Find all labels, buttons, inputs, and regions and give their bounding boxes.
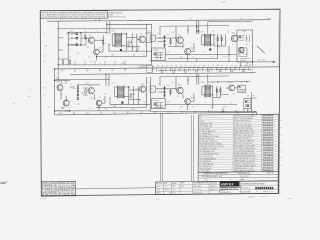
- wire pair to spec box A: [161, 114, 163, 182]
- diode CR33: [163, 94, 165, 96]
- revision table: [41, 181, 75, 196]
- svg-text:SHEET 1 OF 2: SHEET 1 OF 2: [263, 191, 273, 193]
- svg-text:DESCRIPTION: DESCRIPTION: [238, 173, 251, 175]
- wire CH2 transformer leads: [202, 35, 215, 45]
- wire CH1 input column: [58, 33, 108, 66]
- svg-text:DSGN: DSGN: [156, 186, 160, 188]
- svg-text:27: 27: [55, 187, 57, 189]
- svg-text:DES: DES: [42, 192, 45, 194]
- svg-text:R13: R13: [219, 35, 222, 37]
- svg-text:ITEM: ITEM: [204, 179, 208, 181]
- svg-text:DTE: DTE: [42, 185, 45, 187]
- svg-text:P4: P4: [212, 65, 214, 67]
- sheet border frame: [40, 9, 280, 196]
- middle secondary rail: [158, 68, 253, 71]
- svg-text:27: 27: [42, 190, 44, 192]
- svg-text:14: 14: [51, 187, 53, 189]
- wire CH4 output columns: [213, 86, 221, 109]
- revision table text: [42, 182, 76, 197]
- wire CH3 frame: [55, 80, 110, 111]
- svg-text:Q1: Q1: [89, 35, 91, 37]
- wire bottom inner border: [76, 188, 156, 189]
- svg-text:J1: J1: [44, 33, 46, 35]
- wire CH1 upper rail: [58, 28, 146, 30]
- wire CH1 left bus: [57, 21, 59, 68]
- svg-text:STRESS: STRESS: [164, 189, 170, 191]
- relay box K2: [152, 99, 166, 109]
- svg-text:C3: C3: [116, 47, 118, 49]
- svg-text:B8: B8: [171, 69, 173, 71]
- svg-text:B1: B1: [72, 190, 74, 192]
- svg-text:P4: P4: [180, 69, 182, 71]
- svg-text:R29: R29: [77, 104, 80, 106]
- bottom bus component ticks: [60, 110, 249, 115]
- svg-text:DTE: DTE: [59, 190, 62, 192]
- svg-text:R8: R8: [138, 49, 140, 51]
- transistor Q1: [88, 37, 94, 43]
- wire CH4 input links: [156, 86, 176, 98]
- svg-text:R24: R24: [113, 106, 116, 108]
- svg-text:E7: E7: [166, 66, 168, 68]
- svg-text:C33: C33: [211, 106, 214, 108]
- transistor Q23: [88, 88, 94, 94]
- svg-text:P1: P1: [44, 88, 46, 90]
- svg-text:E2: E2: [221, 65, 223, 67]
- company logo block: [220, 181, 242, 194]
- svg-text:E2: E2: [44, 62, 46, 64]
- svg-text:W1: W1: [253, 95, 255, 97]
- capacitor C2 sym: [130, 41, 132, 44]
- top bus annotations: [60, 18, 242, 21]
- svg-text:14: 14: [64, 185, 66, 187]
- CH1 hanging component stubs: [75, 61, 125, 65]
- wire CH3 risers: [94, 74, 109, 111]
- middle labels sparse left: [63, 69, 128, 72]
- diode CR24: [77, 98, 79, 100]
- transistor Q33: [229, 85, 235, 91]
- svg-text:B2: B2: [140, 19, 142, 21]
- svg-text:GULATED AC SWITCH HIGH: GULATED AC SWITCH HIGH: [241, 182, 265, 185]
- transistor Q3: [139, 36, 146, 43]
- svg-text:USED ON: USED ON: [210, 186, 217, 188]
- CH2 junction dots: [164, 25, 230, 55]
- svg-text:CODE 1234: CODE 1234: [168, 193, 176, 195]
- svg-text:T2: T2: [198, 65, 200, 67]
- svg-text:C13: C13: [211, 56, 214, 58]
- transistor Q22: [63, 100, 69, 106]
- svg-text:REFERENCE DESIGNATION: REFERENCE DESIGNATION: [203, 172, 228, 175]
- svg-text:27: 27: [72, 192, 74, 194]
- transistor Q32: [185, 99, 191, 105]
- wire CH4 stick rail: [220, 94, 228, 96]
- input terminal J1-B: [69, 37, 78, 40]
- svg-text:C3: C3: [190, 19, 192, 21]
- svg-text:6.8: 6.8: [61, 94, 63, 96]
- general notes box: [40, 11, 126, 19]
- wire CH1 right bus: [137, 24, 152, 65]
- svg-text:S1: S1: [245, 54, 247, 56]
- margin mark bottom-left outside: [1, 182, 8, 184]
- svg-text:.01: .01: [204, 102, 206, 104]
- svg-text:.01: .01: [99, 63, 101, 65]
- wire CH2 output arrow: [253, 61, 276, 63]
- svg-text:R9: R9: [153, 69, 155, 71]
- svg-text:DRN J.B: DRN J.B: [156, 183, 162, 185]
- bottom bus labels: [61, 110, 253, 115]
- middle terminal blocks: [161, 70, 244, 73]
- wire CH2 risers: [160, 21, 199, 61]
- svg-text:R9: R9: [77, 53, 79, 55]
- svg-text:C8: C8: [155, 112, 157, 114]
- svg-text:R7: R7: [231, 65, 233, 67]
- title strip frame: [156, 181, 279, 195]
- svg-text:CR25: CR25: [131, 109, 136, 111]
- svg-text:+15: +15: [227, 82, 230, 84]
- svg-text:B1: B1: [42, 187, 44, 189]
- svg-text:B1: B1: [59, 192, 61, 194]
- svg-text:2.2: 2.2: [192, 57, 194, 59]
- resistor R20a: [69, 59, 70, 64]
- svg-text:B1: B1: [55, 185, 57, 187]
- svg-text:115: 115: [151, 39, 154, 41]
- input terminal J2-A: [60, 107, 64, 110]
- svg-text:WT: WT: [256, 191, 258, 193]
- capacitor C3 polarized: [120, 49, 122, 51]
- svg-text:C1: C1: [61, 113, 63, 115]
- svg-text:E8: E8: [231, 103, 233, 105]
- svg-text:P2: P2: [44, 96, 46, 98]
- svg-text:K2: K2: [171, 66, 173, 68]
- margin speck left 2: [28, 89, 33, 93]
- junction node CH1 input: [85, 37, 86, 38]
- wire CH1 transformer leads: [112, 34, 126, 46]
- svg-text:R15: R15: [180, 57, 183, 59]
- svg-text:R11: R11: [167, 34, 170, 36]
- wire CH2 box stubs: [241, 62, 253, 67]
- wire CH1 mid links: [95, 43, 104, 60]
- wire stub right border: [252, 98, 257, 115]
- margin mark top 2: [221, 1, 226, 3]
- wire CH2 input links: [156, 35, 176, 48]
- svg-text:+15: +15: [44, 56, 47, 58]
- wire middle bus A: [55, 67, 280, 69]
- signature block grid: [156, 182, 193, 195]
- transformer T1: [115, 33, 121, 47]
- svg-text:R21: R21: [81, 92, 84, 94]
- svg-text:K1 115V: K1 115V: [153, 50, 160, 52]
- resistor R12: [217, 36, 218, 41]
- CH2 value annotations: [158, 31, 249, 60]
- junction dots CH4 rail: [217, 81, 247, 82]
- relay box K1: [152, 48, 166, 61]
- CH1 value annotations: [69, 31, 150, 65]
- svg-text:K2 115V: K2 115V: [153, 100, 160, 102]
- wire CH1 bottom rails: [58, 45, 151, 65]
- svg-text:Q31: Q31: [178, 84, 181, 86]
- transformer T2: [205, 34, 211, 47]
- margin marks below border: [156, 197, 292, 200]
- middle terminal ticks sparse left: [62, 68, 125, 72]
- svg-text:C9: C9: [169, 111, 171, 113]
- svg-text:22: 22: [232, 44, 234, 46]
- svg-text:AMPEX: AMPEX: [221, 182, 235, 186]
- svg-text:P1: P1: [226, 69, 228, 71]
- capacitor C22 sym: [132, 92, 134, 95]
- svg-text:C1: C1: [226, 65, 228, 67]
- svg-text:DES: DES: [55, 190, 58, 192]
- svg-text:4-1-67: 4-1-67: [172, 189, 176, 191]
- svg-text:Q21: Q21: [56, 82, 59, 84]
- svg-text:P2: P2: [157, 66, 159, 68]
- svg-text:R2: R2: [101, 38, 103, 40]
- middle terminal labels: [152, 64, 251, 72]
- input terminal J2-B: [65, 110, 71, 113]
- parts list table: [198, 114, 279, 172]
- table margin row marks: [280, 120, 283, 165]
- diode CR23: [77, 94, 79, 96]
- svg-text:.01: .01: [99, 97, 101, 99]
- parts table text: [199, 115, 273, 173]
- svg-text:DES: DES: [68, 187, 71, 189]
- svg-text:C9: C9: [235, 65, 237, 67]
- svg-text:+28: +28: [148, 31, 151, 33]
- transistor Q25: [140, 86, 146, 92]
- svg-text:B3: B3: [208, 69, 210, 71]
- svg-text:B4: B4: [175, 66, 177, 68]
- svg-text:+28: +28: [227, 32, 230, 34]
- diode CR12: [163, 40, 165, 42]
- svg-text:B3: B3: [240, 65, 242, 67]
- svg-text:DTE: DTE: [55, 183, 58, 185]
- svg-text:T: T: [124, 31, 125, 33]
- wire CH1 output columns: [127, 33, 141, 51]
- svg-text:C4: C4: [101, 112, 103, 114]
- drawing title text: [240, 179, 278, 193]
- svg-text:22: 22: [71, 84, 73, 86]
- svg-text:C4: C4: [64, 192, 66, 194]
- resistor R32: [216, 88, 217, 93]
- wire CH3 right bus: [138, 77, 150, 111]
- resistor R13: [221, 36, 222, 41]
- svg-text:1-CR,J 49,-2: 1-CR,J 49,-2: [241, 187, 250, 189]
- svg-text:DES: DES: [51, 183, 54, 185]
- svg-text:CB: CB: [246, 38, 248, 40]
- svg-text:20: 20: [136, 89, 138, 91]
- wire CH3 output columns: [129, 86, 141, 104]
- label common return: [139, 66, 153, 73]
- svg-text:B1: B1: [68, 183, 70, 185]
- svg-text:CR24: CR24: [90, 98, 94, 100]
- output block CH4: [244, 98, 251, 108]
- svg-text:C15: C15: [250, 110, 253, 112]
- wire CH3 transformer leads: [115, 87, 129, 97]
- input box CH4: [150, 86, 156, 92]
- svg-text:DTE: DTE: [72, 187, 75, 189]
- drawing number digits: [241, 187, 276, 190]
- svg-text:Q25: Q25: [140, 83, 143, 85]
- capacitor C23 polarized: [121, 102, 123, 104]
- wire CH3 bottom rails: [55, 97, 151, 111]
- svg-text:Q3: Q3: [140, 34, 142, 36]
- border inner shadow line: [277, 20, 279, 67]
- svg-text:DS2: DS2: [247, 96, 250, 98]
- wire CH2 output columns: [214, 34, 226, 59]
- CH3 value annotations: [48, 78, 150, 111]
- svg-text:C10: C10: [182, 111, 185, 113]
- resistor R11: [170, 39, 171, 44]
- svg-text:T: T: [126, 83, 127, 85]
- svg-text:C12: C12: [209, 111, 212, 113]
- wire left bus extension: [57, 69, 59, 81]
- svg-text:PART NO: PART NO: [267, 172, 275, 175]
- svg-text:MECHANICAL PARTS LIST: MECHANICAL PARTS LIST: [202, 175, 223, 178]
- resistor R1: [85, 34, 86, 39]
- svg-text:SH 1: SH 1: [241, 179, 244, 181]
- svg-text:C6: C6: [143, 54, 145, 56]
- svg-text:F2: F2: [158, 84, 160, 86]
- svg-text:Q23: Q23: [89, 85, 92, 87]
- procurement spec cell: [193, 181, 226, 194]
- wire middle bus B: [70, 73, 256, 75]
- svg-text:K1: K1: [244, 65, 246, 67]
- transistor Q24: [96, 100, 102, 106]
- svg-text:Q2: Q2: [99, 48, 101, 50]
- middle terminal ticks dense right: [152, 67, 249, 72]
- CH1 junction dots: [58, 24, 138, 57]
- svg-text:CHK: CHK: [164, 183, 167, 185]
- wire notes box stub: [99, 18, 101, 21]
- junction dot CH2 out: [252, 61, 253, 62]
- svg-text:PROJ: PROJ: [156, 189, 160, 191]
- svg-text:2.2: 2.2: [192, 107, 194, 109]
- diode CR31: [163, 87, 165, 89]
- resistor R2: [102, 39, 103, 44]
- svg-text:C7: C7: [142, 112, 144, 114]
- svg-text:Q33: Q33: [229, 82, 232, 84]
- transformer T4: [205, 85, 210, 98]
- svg-text:B1: B1: [46, 195, 48, 197]
- svg-text:FINISH: FINISH: [156, 193, 161, 195]
- svg-text:R7: R7: [199, 69, 201, 71]
- CH4 junction dots: [164, 76, 224, 113]
- resistor R33: [220, 88, 221, 93]
- wire CH4 transformer leads: [202, 87, 213, 95]
- wire CH1 risers: [107, 21, 152, 34]
- resistor R31: [170, 89, 171, 94]
- wire CH3 left bus: [54, 69, 56, 115]
- svg-text:Q13: Q13: [232, 33, 235, 35]
- svg-text:CR34: CR34: [223, 106, 227, 108]
- svg-text:.01: .01: [204, 52, 206, 54]
- CH3 junction dots: [54, 74, 139, 112]
- svg-text:J2: J2: [48, 107, 50, 109]
- svg-text:T3: T3: [115, 83, 117, 85]
- svg-text:-1: -1: [93, 9, 95, 11]
- svg-text:FSCM 80009: FSCM 80009: [193, 193, 202, 195]
- wire CH2 upper rail: [160, 25, 229, 28]
- svg-text:6: 6: [113, 46, 114, 48]
- svg-text:CR4: CR4: [90, 62, 93, 64]
- svg-text:F1: F1: [158, 33, 160, 35]
- wire bottom bus: [55, 112, 257, 115]
- diode CR13: [163, 44, 165, 46]
- svg-text:DS1: DS1: [246, 44, 249, 46]
- svg-text:B8: B8: [203, 65, 205, 67]
- svg-text:47: 47: [145, 45, 147, 47]
- svg-text:Q24: Q24: [102, 99, 105, 101]
- transistor Q13: [231, 35, 238, 42]
- svg-text:C4: C4: [59, 185, 61, 187]
- svg-text:R1: R1: [83, 33, 85, 35]
- svg-text:DTE: DTE: [46, 192, 49, 194]
- svg-text:E1: E1: [180, 66, 182, 68]
- svg-text:R20: R20: [56, 78, 59, 80]
- input terminal J1-A: [66, 32, 78, 35]
- svg-text:C3: C3: [88, 112, 90, 114]
- svg-text:47: 47: [219, 48, 221, 50]
- wire CH1 inner grid: [81, 33, 104, 45]
- svg-text:DES: DES: [72, 195, 75, 197]
- svg-text:Q22: Q22: [70, 101, 73, 103]
- svg-text:C26: C26: [143, 101, 146, 103]
- svg-text:E6: E6: [236, 58, 238, 60]
- diode CR11: [163, 36, 165, 38]
- transistor Q2: [94, 49, 100, 55]
- resistor R3: [128, 41, 129, 46]
- transistor Q31: [177, 87, 184, 94]
- svg-text:J1: J1: [63, 70, 65, 72]
- svg-text:E2: E2: [125, 70, 127, 72]
- diode CR32: [163, 91, 165, 93]
- svg-text:CR14: CR14: [223, 57, 227, 59]
- resistor R22: [130, 93, 131, 98]
- svg-text:CR21: CR21: [72, 88, 77, 90]
- transistor Q11: [177, 37, 184, 44]
- svg-text:1N4: 1N4: [105, 109, 108, 111]
- output block CH2: [237, 30, 253, 62]
- svg-text:101-0542-03: 101-0542-03: [193, 189, 201, 191]
- svg-text:R26: R26: [89, 108, 92, 110]
- svg-text:C14: C14: [236, 110, 239, 112]
- svg-text:R34: R34: [201, 82, 204, 84]
- svg-text:6 40: 6 40: [43, 198, 46, 200]
- capacitor C12 polarized: [209, 48, 211, 50]
- svg-text:SEE NOTE 2: SEE NOTE 2: [240, 176, 250, 178]
- svg-text:C13: C13: [223, 111, 226, 113]
- svg-text:T1: T1: [245, 69, 247, 71]
- resistor R21: [85, 89, 86, 94]
- svg-text:R6: R6: [89, 57, 91, 59]
- svg-text:C4: C4: [189, 65, 191, 67]
- svg-text:2. FOR REFERENCE DRAWINGS SEE: 2. FOR REFERENCE DRAWINGS SEE TABLE. PAR…: [42, 15, 127, 18]
- svg-text:C11: C11: [196, 111, 199, 113]
- wire CH4 risers: [160, 74, 199, 110]
- wire CH3 input links: [70, 85, 101, 100]
- svg-text:47: 47: [145, 95, 147, 97]
- wire CH2 lower rails: [150, 46, 253, 62]
- svg-text:22: 22: [233, 94, 235, 96]
- svg-text:2.2: 2.2: [69, 57, 71, 59]
- wire pair to spec box B: [192, 115, 194, 181]
- svg-text:E1: E1: [88, 70, 90, 72]
- svg-text:CB1: CB1: [243, 31, 246, 33]
- svg-text:C1: C1: [69, 40, 71, 42]
- terminal box CH4: [238, 85, 246, 92]
- svg-text:C2: C2: [69, 50, 71, 52]
- svg-text:R31: R31: [167, 85, 170, 87]
- CH4 value annotations: [158, 82, 256, 109]
- transistor Q21: [57, 85, 63, 91]
